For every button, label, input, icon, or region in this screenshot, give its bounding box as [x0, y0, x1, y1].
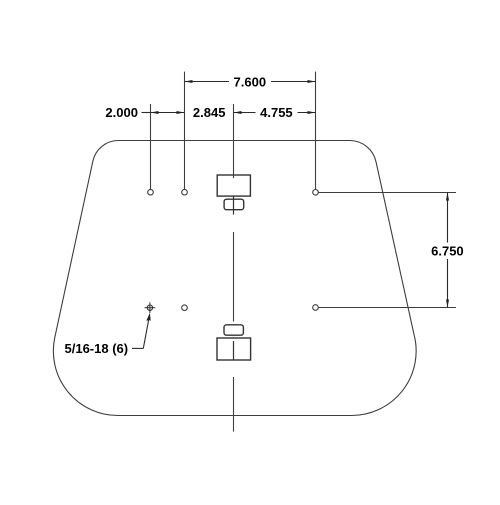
svg-text:2.000: 2.000 — [105, 105, 138, 120]
svg-text:7.600: 7.600 — [234, 74, 267, 89]
svg-text:5/16-18 (6): 5/16-18 (6) — [65, 341, 129, 356]
svg-text:6.750: 6.750 — [431, 244, 464, 259]
svg-text:2.845: 2.845 — [193, 105, 226, 120]
svg-text:4.755: 4.755 — [260, 105, 293, 120]
